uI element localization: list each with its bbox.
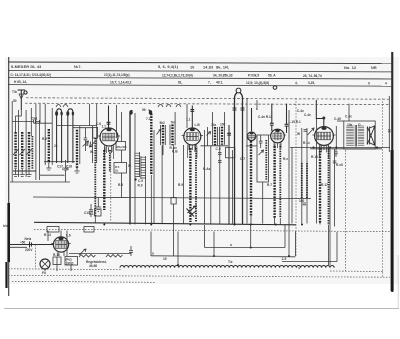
blob top 151 <box>149 110 152 114</box>
tube V3 cathode chain <box>250 141 252 216</box>
coil L2 frame <box>44 104 46 165</box>
outer dashed bottom 2 <box>8 275 390 277</box>
tuning gang section 2 <box>68 109 73 163</box>
blob top 130 <box>129 110 132 114</box>
wire v 275.8 low <box>274 218 276 225</box>
svg-text:49:1.: 49:1. <box>216 81 223 85</box>
cathode chain V2 a <box>189 148 191 222</box>
parts table row 1 text <box>11 65 377 70</box>
IF coil pair 1 left frame <box>160 125 162 145</box>
wire v 121.4 upper <box>120 112 122 142</box>
heater loop B <box>158 105 181 108</box>
mains wire 2 <box>10 246 28 248</box>
wire v 178 low <box>177 232 179 266</box>
svg-text:R.1x: R.1x <box>303 141 310 145</box>
wire v 92.5 <box>92 126 94 163</box>
svg-text:W.: W. <box>128 164 132 168</box>
wire v 151 low <box>150 175 152 225</box>
trimmer arrow 3 <box>27 149 33 155</box>
wire v 329 low <box>328 225 330 265</box>
terminal node P <box>273 86 277 90</box>
wire v 154 <box>153 130 155 224</box>
capacitor pair on 219.8 <box>218 153 222 163</box>
gram node G <box>236 88 241 93</box>
svg-text:R5a W5: R5a W5 <box>117 145 128 149</box>
trimmer arrow 1 <box>13 149 19 155</box>
svg-text:R.x5: R.x5 <box>336 163 343 167</box>
gram cap ticks <box>233 108 245 110</box>
tube V2 grid tick <box>190 110 194 112</box>
volume pot arrow <box>308 128 315 135</box>
antenna coil L1c <box>28 132 30 169</box>
AVC divider v1 <box>291 147 293 224</box>
diode arrow b <box>90 142 96 148</box>
svg-text:C.4x: C.4x <box>297 109 304 113</box>
shield box 3 right <box>329 147 331 265</box>
svg-text:100: 100 <box>299 199 305 203</box>
shield box 1 right <box>284 225 286 248</box>
gram wire right <box>240 93 243 225</box>
wire L1 top <box>16 110 22 132</box>
svg-text:5k2: 5k2 <box>160 121 166 125</box>
wire left block v3 <box>25 110 27 177</box>
transformer secondary winding <box>358 126 364 145</box>
component box 229 <box>226 148 235 158</box>
wire v 229 <box>228 125 230 225</box>
coil L1d <box>31 136 33 169</box>
band switch ladder b <box>141 156 146 179</box>
shield box 4 right dashed <box>344 150 346 272</box>
right bar thick lower <box>391 150 394 291</box>
svg-text:o: o <box>230 243 232 247</box>
wire v 116.5 <box>116 105 118 138</box>
svg-text:C.16: C.16 <box>62 167 69 171</box>
svg-text:50: 50 <box>13 99 17 103</box>
wire below demod box <box>262 182 264 224</box>
parts table row 2 text <box>11 73 322 78</box>
parts table row 3 text <box>14 80 387 85</box>
svg-text:Netz: Netz <box>25 237 32 241</box>
dropper resistor zigzag <box>79 255 96 258</box>
svg-text:Ca1: Ca1 <box>32 117 38 121</box>
wire left block v1 <box>11 101 13 182</box>
wire v 145.6 lower <box>145 179 147 225</box>
left bar lower <box>5 262 7 288</box>
parts table frame <box>8 62 393 86</box>
svg-text:9: 9 <box>368 81 370 85</box>
svg-text:15: 15 <box>163 257 167 261</box>
svg-text:20, 74, 98,74: 20, 74, 98,74 <box>303 74 322 78</box>
diode arrow demod <box>259 150 264 155</box>
switch arrow mains <box>79 249 86 255</box>
wire left block v4 <box>35 104 37 180</box>
oscillator grid chain <box>94 138 96 216</box>
svg-text:59, A: 59, A <box>268 74 276 78</box>
svg-text:R.14: R.14 <box>44 233 51 237</box>
cap C4x bottom <box>334 149 338 157</box>
IF coil pair 2 left frame <box>169 125 171 146</box>
transformer core <box>355 125 356 147</box>
tube V1 (mixer) <box>98 128 120 159</box>
dashed shield box right edge <box>295 98 297 256</box>
resistor box R5a <box>116 142 126 151</box>
svg-text:C.9: C.9 <box>138 179 143 183</box>
main HT bus <box>34 222 296 225</box>
IF coil 1a <box>162 125 164 145</box>
wire h 145.8 <box>201 145 229 147</box>
pilot lamp <box>40 259 50 269</box>
svg-text:4: 4 <box>385 81 387 85</box>
capacitor in box <box>259 135 263 148</box>
wire v 207.6 <box>207 127 209 146</box>
ground symbol L2 <box>46 163 51 170</box>
page border right <box>391 52 393 292</box>
capacitor C4x a <box>270 104 274 131</box>
mains wire <box>10 244 55 246</box>
IF coil pair 4 right frame <box>224 112 226 145</box>
mains plug <box>27 242 36 248</box>
trimmer arrow 2 <box>20 149 26 155</box>
wire v 337 <box>336 232 338 262</box>
AVC beaded segment 1 <box>301 163 303 199</box>
svg-text:C.6: C.6 <box>96 122 101 126</box>
outer dashed bottom 3 <box>12 281 155 282</box>
wire h 125.6 <box>57 125 97 127</box>
ground symbol L1 <box>13 169 18 177</box>
wire v 35.6 dashed <box>35 245 37 270</box>
tube V4 pins <box>275 143 280 148</box>
heater loop A <box>56 105 68 108</box>
wire h 161.7 <box>44 161 75 163</box>
svg-text:12,5; 13,(4),5(8): 12,5; 13,(4),5(8) <box>246 81 269 85</box>
oscillator coil L3 <box>76 130 78 168</box>
svg-text:o: o <box>152 252 154 256</box>
IF coil pair 3 left frame <box>212 112 214 145</box>
antenna <box>18 90 28 110</box>
coupling cap 100 <box>303 203 307 205</box>
svg-text:Fu: Fu <box>42 271 46 275</box>
wire v 336 <box>335 126 337 149</box>
tube V2 (IF amp) <box>182 128 203 158</box>
diode 3 <box>207 132 211 136</box>
antenna coil L1 secondary <box>21 132 23 169</box>
svg-text:W.: W. <box>90 150 94 154</box>
wire v 250.7 low <box>250 225 252 248</box>
svg-text:P:03k,5: P:03k,5 <box>248 74 259 78</box>
box ground stub <box>56 265 58 272</box>
svg-text:17(1),11,74,1/5(p): 17(1),11,74,1/5(p) <box>104 73 130 77</box>
svg-text:10,7; 1,14,43,2: 10,7; 1,14,43,2 <box>110 80 132 84</box>
cathode chain V4 a <box>273 146 275 218</box>
wire v 210.8 <box>210 146 212 224</box>
svg-text:R.2: R.2 <box>42 137 47 141</box>
wire v 183.5 <box>183 145 185 224</box>
wire v 163 below <box>162 145 164 155</box>
tick 257 <box>256 100 258 110</box>
wire h 175.2 <box>40 174 65 176</box>
svg-text:190Ω: 190Ω <box>66 261 74 265</box>
svg-text:R.13: R.13 <box>53 253 60 257</box>
svg-text:4: 4 <box>298 266 300 270</box>
wire v 95.3 low <box>94 216 96 224</box>
resistor box R13 <box>53 257 61 265</box>
wire v 232.6 <box>232 150 234 224</box>
wire h 147 right <box>290 146 390 148</box>
wire v 121.4 <box>120 150 122 163</box>
svg-text:5-MEDER DL 43: 5-MEDER DL 43 <box>11 65 41 69</box>
B+ feed wire to transformer <box>348 104 350 121</box>
tube V3 (small, demod diode) <box>247 132 256 141</box>
AVC divider v2 <box>301 128 303 224</box>
braid shield scallops <box>120 266 334 268</box>
svg-text:C.4x: C.4x <box>304 113 311 117</box>
cap ticks on 334.6 <box>333 161 337 163</box>
cathode chain V2 b <box>195 148 197 222</box>
svg-text:59: 59 <box>142 108 146 112</box>
wire v 40 <box>39 104 41 123</box>
cap C16 <box>129 246 133 256</box>
svg-text:1k: 1k <box>115 169 119 173</box>
IF trafo 1 coil b <box>150 114 152 176</box>
wire v 214 low <box>213 232 215 257</box>
loudspeaker <box>367 126 375 145</box>
band switch ladder a <box>135 152 140 177</box>
resistor box R5 <box>114 163 127 174</box>
resistor box Fu <box>65 257 78 266</box>
svg-text:T/b: T/b <box>12 90 17 94</box>
RF coil L2 <box>48 129 50 163</box>
wire v 204.5 <box>204 130 206 225</box>
svg-text:34, 20,85k,33: 34, 20,85k,33 <box>213 73 233 77</box>
IF coil pair 3 right frame <box>216 127 218 145</box>
gang 2 vane blobs <box>66 111 69 116</box>
svg-text:b/n: b/n <box>3 224 8 228</box>
cathode chain V5 b <box>328 148 330 225</box>
gram wire left <box>235 93 238 225</box>
svg-text:2k: 2k <box>54 144 58 148</box>
wire v 289 <box>288 110 290 225</box>
AVC wire v 312.5 <box>316 119 318 224</box>
dashed shield right outer <box>382 98 384 277</box>
junction dots h147 <box>313 146 379 148</box>
volume pot under V2 <box>187 206 197 217</box>
svg-text:74x: 74x <box>211 123 217 127</box>
svg-text:W: W <box>297 132 300 136</box>
wire v 247 <box>246 98 248 224</box>
svg-text:C: 14,17,8,31; CV3-4(30,32): C: 14,17,8,31; CV3-4(30,32) <box>11 73 51 77</box>
svg-text:R.9: R.9 <box>178 183 183 187</box>
svg-text:C.7: C.7 <box>240 157 245 161</box>
capacitor on 229 <box>227 133 231 135</box>
tube V2 pins <box>189 145 196 150</box>
shield box 2 right <box>295 232 297 257</box>
wire v 67 top <box>66 231 68 257</box>
component box on chain <box>95 209 102 216</box>
ground symbol mid <box>96 198 102 212</box>
padder cap <box>84 128 88 151</box>
rectifier top stub <box>60 231 62 238</box>
cap tick pair <box>304 130 308 132</box>
svg-text:No. 12: No. 12 <box>344 66 356 70</box>
coil L3 frame right <box>79 126 81 164</box>
IF coil pair 1 right frame <box>164 125 166 145</box>
cathode chain V4 b <box>279 146 281 218</box>
lamp ground stub <box>44 269 46 272</box>
coil L2 frame right <box>51 108 53 165</box>
ground symbol L1b <box>20 169 25 177</box>
svg-text:Ω: Ω <box>358 123 361 127</box>
wire v 173.6 lower <box>173 204 175 256</box>
dropper resistor 2 <box>106 255 123 258</box>
page border left <box>8 57 10 296</box>
wire h 148.8 <box>310 148 382 150</box>
svg-text:R.17: R.17 <box>321 183 328 187</box>
tube V1 grid cap stub <box>108 106 110 130</box>
IF coil 2b <box>221 127 223 145</box>
AVC beaded segment 2 <box>306 163 308 199</box>
ground bar left block <box>13 170 36 172</box>
wire left block v5 <box>38 120 40 180</box>
cathode resistor chain V1 <box>103 150 105 210</box>
gang 1 vane blobs <box>55 111 58 116</box>
svg-text:1.1: 1.1 <box>102 125 107 129</box>
tube V4 (AF) <box>269 129 286 148</box>
IF coil pair 4 left frame <box>219 127 221 145</box>
svg-text:7k3: 7k3 <box>171 121 177 125</box>
wire left block v2 <box>18 110 20 177</box>
tube V5 grid stub <box>316 100 324 127</box>
svg-text:R.9: R.9 <box>138 184 143 188</box>
ground symbol L1c <box>26 169 31 177</box>
box2 ground stub <box>70 265 72 271</box>
IF trafo 1 coil b hook <box>148 110 151 114</box>
wire h 127.7 <box>73 127 93 129</box>
IF coil 2a <box>214 127 216 145</box>
junction dot C9 <box>134 178 136 180</box>
wire top L2 <box>34 122 52 124</box>
wire v 121.4 lower <box>120 173 122 198</box>
wire v 173.6 <box>173 145 175 197</box>
wire v 89.6 <box>89 104 91 126</box>
screen feed V1 <box>109 150 111 172</box>
wire v 162.1 <box>161 145 163 223</box>
svg-text:4,: 4, <box>295 81 298 85</box>
wire v 48 top <box>47 231 49 242</box>
tube V2 grid stub <box>191 106 193 129</box>
capacitor Ca1 <box>12 120 40 124</box>
shield box 1 left <box>204 225 206 248</box>
wire h 261.5 <box>282 261 337 263</box>
chassis bus dashed <box>34 229 390 231</box>
svg-text:C.4n R.11: C.4n R.11 <box>258 115 273 119</box>
svg-text:40-60: 40-60 <box>89 264 97 268</box>
svg-text:T.b: T.b <box>228 260 232 264</box>
svg-text:R.Ax: R.Ax <box>203 167 210 171</box>
svg-text:C.4x: C.4x <box>345 115 352 119</box>
transformer primary winding <box>346 126 354 145</box>
tube V3 stub <box>251 108 253 131</box>
tube V5 (output) <box>312 127 335 159</box>
svg-text:10k: 10k <box>220 123 226 127</box>
outer dashed bottom 1 <box>8 268 122 271</box>
junction dots bus <box>103 221 321 266</box>
svg-text:R.15: R.15 <box>311 155 318 159</box>
output transformer box <box>344 121 375 149</box>
svg-text:1.1: 1.1 <box>186 118 191 122</box>
terminal box right <box>84 227 94 233</box>
svg-text:R.x: R.x <box>283 157 288 161</box>
oscillator box <box>93 128 98 139</box>
tuning gang section 1 <box>57 109 62 163</box>
shield dashed bus top B (heater line) <box>25 103 390 104</box>
svg-text:10: 10 <box>190 65 195 69</box>
demod box <box>257 135 269 182</box>
svg-text:NR: NR <box>371 66 377 70</box>
tube V1 grid cap tick <box>107 122 111 124</box>
R13 inner <box>56 257 58 265</box>
svg-text:№7.: №7. <box>74 65 82 69</box>
capacitor C15 <box>89 204 93 217</box>
left bar thick <box>7 203 10 262</box>
cathode chain V5 a <box>319 148 321 222</box>
svg-text:L.15 R.1: L.15 R.1 <box>289 120 301 124</box>
svg-text:0,25,: 0,25, <box>308 81 315 85</box>
diode arrow a <box>83 141 89 147</box>
wire trafo top <box>337 120 344 122</box>
wire v mid left <box>30 108 32 136</box>
terminal box left <box>47 227 59 233</box>
IF coil 1b <box>171 125 173 146</box>
svg-text:L.B: L.B <box>195 123 201 127</box>
svg-text:.1.5: .1.5 <box>281 257 287 261</box>
svg-text:R.7: R.7 <box>267 183 272 187</box>
wire h 253.5 <box>69 253 131 255</box>
capacitor C16 left <box>64 160 68 182</box>
screen wire V2 <box>186 104 188 128</box>
svg-text:R.B: R.B <box>172 150 178 154</box>
svg-text:≈50: ≈50 <box>20 241 26 245</box>
wire v 289 low <box>288 225 290 257</box>
shield dashed bus top A <box>26 98 390 99</box>
ground symbol L3 <box>74 168 79 173</box>
capacitor C4x b <box>285 104 289 133</box>
bus mid solid <box>33 197 311 199</box>
svg-text:C.45: C.45 <box>334 117 341 121</box>
wire v 320 low <box>319 222 321 225</box>
svg-text:b.1: b.1 <box>89 212 94 216</box>
antenna coil L1 primary <box>14 132 16 169</box>
diode 2 <box>157 130 162 135</box>
rectifier tube V6 <box>51 237 71 252</box>
tube V5 grid cap <box>322 117 325 120</box>
bottom faint edge <box>4 308 399 310</box>
wire v 251 low <box>250 216 252 225</box>
wire hbar left <box>10 181 70 183</box>
shield box 2 left <box>150 232 152 257</box>
svg-text:220V: 220V <box>25 248 33 252</box>
wire h into box <box>246 145 257 147</box>
svg-text:5, 6, 9,4(1): 5, 6, 9,4(1) <box>158 65 179 69</box>
svg-text:7.1: 7.1 <box>146 117 151 121</box>
wire v 135 upper <box>134 113 136 152</box>
svg-text:7,: 7, <box>208 81 211 85</box>
wire v 281.8 low <box>279 218 281 225</box>
demod winding <box>265 140 267 180</box>
AVC divider v3 <box>306 128 308 224</box>
svg-text:8k, 1R,: 8k, 1R, <box>216 66 229 70</box>
shield box 1 bottom <box>205 247 286 249</box>
svg-text:R.5: R.5 <box>118 183 123 187</box>
